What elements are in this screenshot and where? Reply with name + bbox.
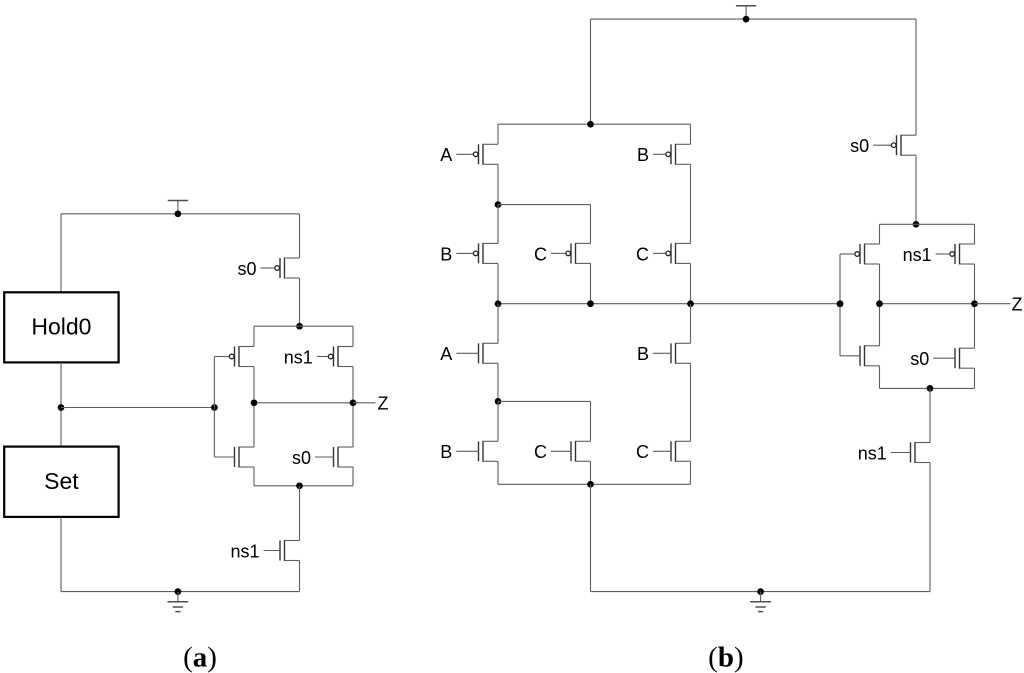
svg-text:B: B (440, 244, 452, 264)
svg-text:Set: Set (44, 468, 79, 494)
svg-text:s0: s0 (292, 448, 311, 468)
svg-text:C: C (636, 442, 649, 462)
svg-text:ns1: ns1 (230, 541, 259, 561)
svg-text:s0: s0 (237, 259, 256, 279)
svg-text:s0: s0 (910, 349, 929, 369)
svg-text:(b): (b) (708, 642, 743, 673)
svg-text:B: B (440, 442, 452, 462)
svg-text:s0: s0 (850, 136, 869, 156)
svg-text:C: C (636, 244, 649, 264)
svg-text:B: B (637, 145, 649, 165)
svg-text:Hold0: Hold0 (31, 314, 91, 340)
svg-text:ns1: ns1 (858, 443, 887, 463)
svg-text:Z: Z (378, 393, 389, 413)
svg-text:ns1: ns1 (903, 245, 932, 265)
svg-text:(a): (a) (183, 642, 217, 673)
svg-text:C: C (534, 244, 547, 264)
svg-text:ns1: ns1 (284, 347, 313, 367)
svg-text:A: A (440, 344, 452, 364)
svg-text:A: A (440, 145, 452, 165)
svg-text:B: B (637, 344, 649, 364)
svg-text:C: C (534, 442, 547, 462)
svg-text:Z: Z (1012, 294, 1023, 314)
